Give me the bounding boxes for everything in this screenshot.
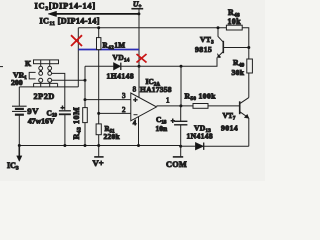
node dot R42 top (97, 26, 100, 29)
diode VD14 1N4148 (85, 53, 139, 81)
node dot pin8 net (138, 65, 141, 68)
wire U+ vertical down to op-amp pin8 (138, 9, 140, 98)
wire drop to output (180, 66, 182, 106)
wire pin2 with R51 (99, 113, 131, 124)
transistor VT7 9014 (221, 98, 249, 147)
svg-text:200: 200 (11, 78, 23, 87)
terminal V+ (93, 146, 104, 169)
node dot pin3 (84, 98, 87, 101)
wire left supply vertical x=78.3 (77, 28, 79, 87)
svg-text:+: + (171, 117, 175, 125)
switch K 2P2D (25, 59, 59, 87)
red X mark 2 (137, 54, 147, 63)
node dot output (179, 104, 182, 107)
svg-text:10k: 10k (228, 17, 242, 26)
blue highlighted wire (78, 49, 139, 51)
svg-text:R50 100k: R50 100k (185, 92, 217, 102)
resistor R43 10M vertical (72, 80, 87, 145)
svg-text:K: K (25, 59, 31, 68)
svg-text:4: 4 (133, 119, 137, 127)
wire output pin1 (157, 105, 194, 107)
svg-text:3: 3 (122, 92, 126, 100)
node dot VD14/R43 (84, 79, 87, 82)
left edge mark (0, 66, 3, 68)
resistor R50 100k (185, 92, 240, 109)
resistor R42 1M (97, 28, 126, 114)
diode VD13 1N4148 (181, 124, 249, 150)
svg-text:2P2D: 2P2D (34, 92, 55, 101)
resistor R51 220k (96, 124, 120, 146)
node dot VT3 collector (217, 26, 220, 29)
wire bottom rail (19, 145, 180, 147)
node dot R49 top (247, 46, 250, 49)
svg-text:COM: COM (166, 160, 187, 169)
wire emitter net y66 to VT3 (139, 58, 217, 67)
svg-text:9815: 9815 (195, 45, 212, 54)
terminal COM (166, 146, 187, 169)
svg-text:9014: 9014 (221, 124, 238, 133)
svg-text:+: + (133, 95, 137, 104)
capacitor C19 47u16V (28, 104, 71, 145)
transistor VT3 9815 (195, 28, 249, 58)
capacitor C18 10n (156, 106, 188, 146)
op-amp IC2A HA17358 (122, 77, 172, 127)
arrow IC3 (7, 146, 22, 172)
svg-text:V+: V+ (93, 158, 104, 168)
terminal U+ (131, 0, 143, 10)
red X mark 1 (71, 35, 82, 46)
svg-text:9V: 9V (27, 106, 39, 116)
variable resistor VR1 bracket (11, 71, 36, 87)
node dot arrow/U+ (137, 12, 140, 15)
label IC2 DIP14 (35, 2, 96, 13)
svg-text:47w16V: 47w16V (28, 117, 55, 126)
svg-text:+: + (61, 104, 65, 111)
svg-text:2: 2 (122, 106, 126, 114)
svg-text:HA17358: HA17358 (140, 85, 172, 94)
svg-text:IC2[DIP14-14]: IC2[DIP14-14] (35, 2, 96, 13)
wire pin4 down (138, 117, 140, 146)
svg-text:R421M: R421M (103, 42, 126, 51)
wire pin3 (85, 99, 131, 101)
svg-text:8: 8 (133, 86, 137, 94)
arrow to U+ node (IC2 supply arrow) (48, 11, 139, 16)
svg-text:10n: 10n (156, 124, 169, 133)
wire switch B2 to C19 (52, 73, 65, 110)
resistor R48 10k (226, 8, 248, 47)
svg-text:1: 1 (166, 97, 170, 105)
svg-text:R43 10M: R43 10M (72, 107, 82, 140)
battery 9V (12, 87, 39, 146)
svg-text:IC11 [DIP14-14]: IC11 [DIP14-14] (40, 17, 100, 28)
svg-text:220k: 220k (104, 132, 121, 141)
wire switch B3 to node (52, 79, 85, 81)
resistor R49 30k (232, 48, 253, 98)
label IC11 DIP14 (40, 17, 100, 28)
svg-text:1H4148: 1H4148 (107, 72, 135, 81)
node dot drop (180, 65, 183, 68)
wire battery+ horizontal y=86.9 (19, 86, 78, 88)
wire top supply rail y=27.8 (78, 27, 226, 29)
svg-text:30k: 30k (232, 68, 245, 77)
svg-text:1N4148: 1N4148 (187, 131, 214, 140)
node dots bottom rail (18, 144, 21, 147)
